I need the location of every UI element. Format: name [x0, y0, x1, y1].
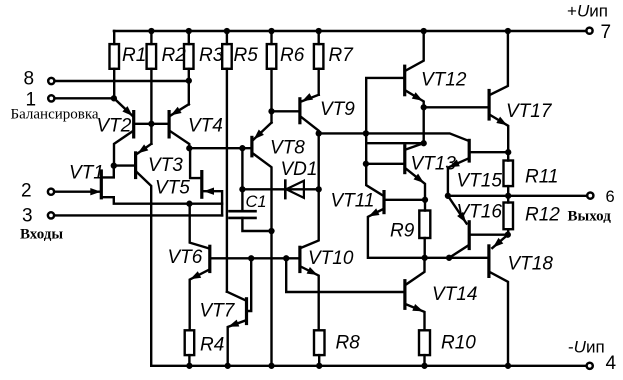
svg-text:VT6: VT6 [168, 247, 203, 268]
svg-text:R5: R5 [234, 45, 259, 66]
wire: R5 long lead down to VT7 collector [226, 31, 228, 292]
wire: R7 lead down to VT9 emitter [318, 31, 320, 95]
wire: -U supply bottom rail [151, 365, 586, 367]
junction: VT13 collector node [421, 140, 427, 146]
wire: VT2 collector down to node A [114, 131, 133, 166]
transistor VT7 [245, 299, 248, 324]
wire: R11 bottom lead to output line [507, 186, 509, 196]
junction: VD1 line on C1 riser [239, 186, 245, 192]
svg-text:R3: R3 [199, 45, 224, 66]
junction: VT15 base on VT17 emitter riser [505, 149, 511, 155]
wire: VT7 base up to common base node [248, 258, 251, 311]
resistor R4 [185, 330, 195, 355]
svg-text:VT5: VT5 [155, 178, 190, 199]
wire: VT12 emitter down to VT13 collector node [406, 91, 424, 143]
wire: VT4 collector to node B [170, 131, 190, 149]
transistor VT8 [250, 137, 253, 155]
arrow VT6 emitter [190, 271, 201, 279]
terminal 2 (input) [48, 189, 54, 195]
wire: VT1 collector to node A [102, 166, 114, 178]
svg-text:R10: R10 [441, 333, 476, 354]
wire: VT3 emitter from R2 lead [137, 144, 151, 154]
resistor R1 [110, 44, 120, 69]
svg-text:R8: R8 [336, 333, 361, 354]
svg-text:VT18: VT18 [508, 254, 554, 275]
wire: VT18 collector down to bottom rail [490, 272, 508, 366]
junction: terminal 8 line and R3 lead [186, 78, 192, 84]
arrow VT8 emitter [254, 130, 264, 140]
transistor VT13 [403, 146, 406, 173]
wire: VT17 collector up to top rail [490, 31, 508, 95]
junction dots bottom rail: R4,VT7,VT8,R8,R10,VT18 [186, 363, 192, 369]
terminal 1 (balance) [48, 95, 54, 101]
wire: C1 bottom plate to VT8 collector line [242, 218, 271, 231]
svg-text:VT2: VT2 [97, 116, 132, 137]
wire: R3 leads down to VT4 emitter [188, 31, 190, 104]
svg-text:Входы: Входы [20, 227, 63, 243]
svg-text:R4: R4 [200, 335, 224, 356]
wire: terminal 3 input line to VT5 emitter riser [55, 214, 223, 216]
resistor R7 [314, 44, 324, 69]
transistor VT9 [298, 99, 301, 123]
wire: VT11 collector up to VT12 base line [366, 78, 403, 195]
junction: VT1/VT5 emitters and VT6 collector [186, 201, 192, 207]
wire: VT15 collector line from VT9 collector node [319, 133, 469, 141]
wire: R4 bottom lead to rail [188, 355, 190, 366]
wire: VT2 base to R2 node [135, 123, 152, 125]
wire: VT6 emitter down to R4 [190, 270, 209, 331]
junction: R9 bottom on VT18 base line [422, 255, 428, 261]
svg-text:VT15: VT15 [457, 171, 503, 192]
svg-text:R9: R9 [390, 221, 415, 242]
wire: R12 bottom lead to VT18 emitter node [507, 229, 509, 235]
svg-text:VT11: VT11 [331, 191, 375, 212]
svg-text:R1: R1 [122, 45, 146, 66]
svg-text:VT13: VT13 [411, 154, 457, 175]
wire: R1 bottom lead to node of terminal 1 [113, 31, 115, 98]
wire: VT15 emitter down to output line [448, 159, 468, 196]
wire: R10 bottom lead to rail [423, 355, 425, 366]
wire: VD1 anode line between C1 node and VT9 collector line [242, 188, 318, 190]
resistor R10 [419, 330, 430, 355]
wire: C1 top plate to VT8 base line [241, 148, 243, 211]
terminal 4 (-Uип) [587, 363, 593, 369]
wire: terminal 1 to R1 bottom node [55, 97, 114, 99]
svg-text:4: 4 [606, 353, 617, 374]
capacitor C1 [230, 211, 256, 218]
svg-text:-Uип: -Uип [568, 338, 605, 357]
wire: output line to terminal 6 [448, 195, 587, 197]
wire: VT13 collector node to VT12 base riser [366, 142, 424, 144]
svg-text:2: 2 [21, 181, 32, 202]
junction: VT11 base / R9 top [422, 197, 428, 203]
transistor VT1 [100, 171, 103, 198]
transistor VT17 [488, 91, 491, 120]
wire: VT15 base to VT17 emitter node [471, 151, 509, 153]
svg-text:6: 6 [606, 188, 615, 206]
wire: VT17 base from VT12 emitter node [424, 106, 488, 108]
svg-text:VD1: VD1 [281, 159, 318, 180]
wire: VT3 base from node A [114, 164, 134, 166]
diode VD1 [284, 181, 287, 199]
svg-text:C1: C1 [246, 193, 267, 211]
wire: VT16 collector to VT18 base line [449, 246, 468, 258]
arrow VT10 emitter [307, 267, 318, 275]
resistor R6 [267, 44, 277, 69]
arrow VT17 emitter [496, 117, 507, 126]
junction: VT15 line on VT12 base riser [363, 130, 369, 136]
junction: VT7 base on common base line [248, 255, 254, 261]
svg-text:R2: R2 [162, 45, 187, 66]
arrow VT11 emitter [369, 208, 380, 216]
wire: VT14 emitter down to R10 [406, 304, 424, 330]
svg-text:VT14: VT14 [432, 284, 477, 305]
wire: VT11 emitter down to VT18 base line [368, 209, 488, 257]
transistor VT3 [134, 153, 137, 178]
junction: VT9 base on R6 lead [268, 108, 274, 114]
wire: VT8 emitter up to R6 lead [253, 123, 271, 140]
svg-text:VT1: VT1 [69, 163, 104, 184]
transistor VT18 [487, 246, 490, 277]
svg-text:VT3: VT3 [148, 155, 183, 176]
arrow VT16 emitter [457, 212, 466, 223]
transistor VT14 [403, 281, 406, 309]
wire: +U supply top rail [114, 30, 586, 32]
terminal 6 (output) [587, 193, 593, 199]
transistor VT5 [200, 172, 203, 198]
svg-text:8: 8 [24, 69, 35, 90]
arrow VT18 emitter [493, 238, 503, 248]
arrow VT14 emitter [412, 304, 423, 311]
svg-text:VT10: VT10 [308, 248, 354, 269]
wire: VT13 base from VT12 riser [365, 163, 403, 165]
svg-text:VT8: VT8 [270, 138, 305, 159]
node A: VT1 collector / VT2 collector / VT3 base [111, 162, 117, 168]
transistor VT15 [468, 140, 471, 161]
junction dots top rail: R2,R3,R5,R6,R7,VT12,VT17 [148, 28, 154, 34]
wire: VT14 collector up to R9 bottom node [406, 258, 424, 285]
junction: terminal 1 line and R1 lead [111, 95, 117, 101]
resistor R8 [314, 330, 325, 355]
wire: VT10 emitter down to R8 [301, 267, 318, 330]
resistor R9 [419, 211, 430, 239]
arrow VT7 emitter [228, 320, 239, 327]
svg-text:VT4: VT4 [188, 116, 223, 137]
wire: VT11 base to R9 top node [386, 199, 425, 201]
wire: VT9 base from R6 node [272, 110, 299, 112]
junction: VT15/VT16 emitters on output line [445, 193, 451, 199]
wire: VT9 collector down to VT10 collector [301, 117, 318, 248]
svg-text:VT7: VT7 [200, 301, 236, 322]
svg-text:3: 3 [22, 206, 33, 227]
wire: VT10 emitter node to VT14 base [286, 258, 403, 292]
junction: VT15 line on VT9 collector [316, 130, 322, 136]
svg-text:R11: R11 [525, 167, 558, 188]
transistor VT12 [403, 66, 406, 95]
arrow VT12 emitter [412, 92, 423, 101]
wire: VT1 emitter to VT5/VT6 node [102, 197, 189, 204]
resistor R2 [147, 44, 157, 69]
resistor R3 [184, 44, 194, 69]
junction: VT2/VT4 bases on R2 lead [148, 121, 154, 127]
resistor R11 [504, 161, 514, 187]
wire: VT4 emitter from R3 lead [170, 104, 189, 116]
wire: VT5/VT6 node horizontal [189, 202, 222, 204]
junction: VT16 collector on VT18 base line [446, 255, 452, 261]
junction: VT10 emitter branch on common base line [283, 255, 289, 261]
junction: VD1 line on VT9 collector riser [316, 186, 322, 192]
terminal 8 (balance) [48, 78, 54, 84]
wire: VT5 collector up to node B [190, 148, 200, 178]
wire: R6 lead down to VT9 base node and VT8 emitter [270, 31, 272, 123]
wire: VT2 emitter from R1 node [114, 98, 133, 116]
wire: VT7 emitter down to rail [228, 321, 246, 366]
svg-text:R6: R6 [280, 45, 305, 66]
junction: R11 bottom on output line [505, 193, 511, 199]
wire: terminal 2 to VT1 base [55, 190, 100, 192]
svg-text:Выход: Выход [568, 209, 612, 225]
transistor VT6 [208, 246, 211, 271]
transistor VT16 [468, 222, 471, 249]
wire: VT13 emitter down to R9 [406, 169, 425, 211]
svg-text:Балансировка: Балансировка [11, 107, 99, 123]
svg-text:VT12: VT12 [421, 70, 467, 91]
node B: VT4 collector / VT5 collector / VT8 base [186, 145, 192, 151]
wire: VT17 emitter down to R11 [490, 115, 508, 160]
transistor VT10 [298, 247, 301, 271]
wire: VT3 collector down to bottom rail corner [137, 172, 151, 366]
wire: terminal 8 to R3 bottom [55, 80, 189, 82]
svg-text:R7: R7 [329, 45, 355, 66]
resistor R5 [222, 44, 232, 69]
transistor VT11 [382, 192, 385, 213]
junction: VT17 base on VT12 emitter riser [421, 104, 427, 110]
arrow VT15 emitter [449, 160, 460, 168]
wire: VT18 emitter from R12 bottom node [492, 235, 508, 248]
wire: VT6 base line to VT10 base [212, 257, 299, 259]
junction: R12 bottom / VT16 base / VT18 emitter [505, 232, 511, 238]
svg-text:VT16: VT16 [457, 202, 503, 223]
svg-text:R12: R12 [525, 205, 560, 226]
transistor VT2 [132, 112, 135, 137]
arrow VT13 emitter [414, 174, 425, 183]
wire: R12 top lead from output line [507, 196, 509, 203]
transistor VT4 [168, 112, 171, 137]
wire: VT12 collector up to top rail [406, 31, 424, 70]
wire: VT7 collector up-left to R5 lead [227, 292, 245, 301]
wire: VT5 emitter from input3 riser [203, 191, 222, 215]
arrow on input 2 wire [90, 188, 101, 195]
wire: R2 leads, down to VT2/VT4 base node and VT3 emitter [150, 31, 152, 144]
wire: VT16 base to R12 bottom node [471, 233, 508, 235]
svg-text:+Uип: +Uип [567, 2, 608, 21]
wire: VT13 collector to VT12 emitter node [406, 143, 424, 149]
wire: VT8 base line from node B [189, 147, 250, 149]
terminal 3 (input) [48, 212, 54, 218]
wire: VT16 emitter from output node [448, 196, 467, 224]
terminal 7 (+Uип) [586, 28, 592, 34]
wire: VT9 emitter from R7 lead [301, 95, 318, 102]
wire: VT6 collector up to VT5/VT1 node [190, 204, 209, 249]
arrow VT9 emitter [302, 93, 313, 101]
wire: VT8 collector down to bottom rail [253, 154, 271, 366]
junction: VT13 base on VT12 base riser [363, 161, 369, 167]
wire: R8 bottom lead to rail [318, 355, 320, 366]
svg-text:7: 7 [601, 22, 612, 43]
junction: C1 top tap on VT8 base line [239, 145, 245, 151]
arrow VT2 emitter [122, 106, 132, 116]
junction: C1 bottom on VT8 collector riser [268, 228, 274, 234]
arrow VT5 emitter [204, 188, 215, 195]
arrow VT4 emitter [171, 107, 182, 116]
resistor R12 [504, 203, 514, 230]
arrow VT3 emitter [138, 144, 149, 153]
svg-text:VT17: VT17 [506, 101, 553, 122]
wire: VT4 base to R2 node [151, 123, 168, 125]
wire: R9 bottom lead to VT18 base line [424, 238, 426, 258]
svg-text:VT9: VT9 [320, 99, 355, 120]
